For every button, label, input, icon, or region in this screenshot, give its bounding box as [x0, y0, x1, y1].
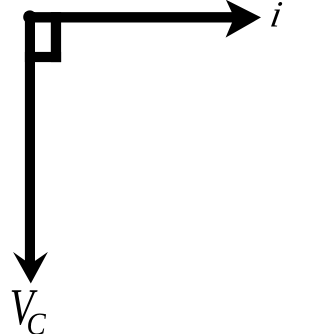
svg-text:C: C	[27, 306, 47, 334]
right-angle marker vertical bar	[51, 12, 61, 62]
svg-text:i: i	[267, 0, 284, 35]
wire phasor i (horizontal arrow right)	[30, 0, 261, 38]
node origin dot	[23, 10, 36, 23]
right-angle marker horizontal bar	[25, 52, 61, 62]
wire phasor VC (vertical arrow down)	[13, 12, 48, 284]
